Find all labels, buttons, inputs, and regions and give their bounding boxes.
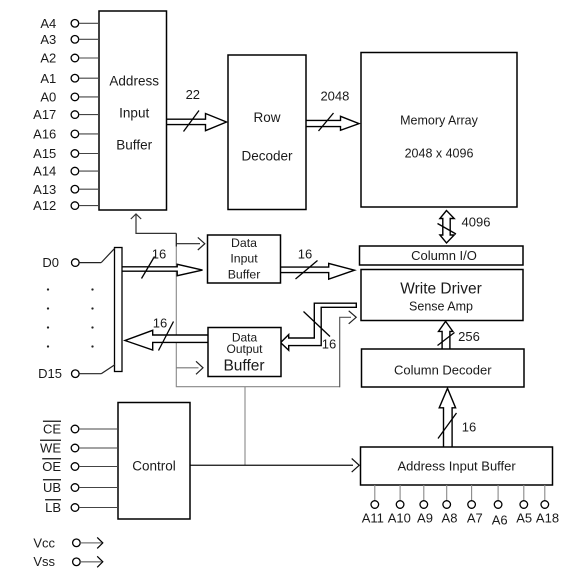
svg-text:A13: A13 — [33, 182, 56, 197]
svg-text:Buffer: Buffer — [223, 357, 264, 374]
svg-text:A12: A12 — [33, 198, 56, 213]
svg-text:A10: A10 — [388, 511, 411, 526]
svg-text:Sense Amp: Sense Amp — [409, 300, 473, 314]
svg-text:Data: Data — [231, 236, 257, 250]
svg-text:WE: WE — [40, 441, 61, 456]
svg-text:16: 16 — [322, 337, 336, 352]
svg-text:Buffer: Buffer — [116, 137, 152, 152]
svg-text:Buffer: Buffer — [228, 267, 261, 281]
svg-text:Input: Input — [230, 252, 258, 266]
svg-text:A15: A15 — [33, 146, 56, 161]
svg-text:UB: UB — [43, 480, 61, 495]
svg-text:LB: LB — [45, 500, 61, 515]
svg-text:2048: 2048 — [320, 89, 349, 104]
svg-text:A9: A9 — [417, 511, 433, 526]
svg-text:Row: Row — [253, 110, 280, 125]
svg-text:A14: A14 — [33, 164, 56, 179]
svg-text:16: 16 — [462, 420, 476, 435]
svg-text:A18: A18 — [536, 511, 559, 526]
svg-text:A3: A3 — [40, 32, 56, 47]
svg-text:D15: D15 — [38, 366, 62, 381]
svg-text:A2: A2 — [40, 51, 56, 66]
svg-text:Write Driver: Write Driver — [400, 280, 482, 297]
svg-text:Control: Control — [132, 458, 176, 473]
svg-text:A5: A5 — [516, 511, 532, 526]
svg-text:Address Input Buffer: Address Input Buffer — [397, 459, 516, 474]
svg-text:A7: A7 — [467, 511, 483, 526]
svg-text:A17: A17 — [33, 107, 56, 122]
svg-text:16: 16 — [298, 246, 312, 261]
svg-text:A16: A16 — [33, 127, 56, 142]
svg-text:D0: D0 — [42, 255, 59, 270]
svg-text:A8: A8 — [442, 511, 458, 526]
svg-text:Input: Input — [119, 106, 149, 121]
svg-text:Output: Output — [226, 342, 263, 356]
svg-text:16: 16 — [153, 316, 167, 331]
svg-text:Vcc: Vcc — [33, 535, 55, 550]
svg-text:A11: A11 — [362, 511, 384, 526]
svg-text:Decoder: Decoder — [241, 149, 293, 164]
svg-text:Column I/O: Column I/O — [411, 248, 477, 263]
svg-text:4096: 4096 — [462, 215, 491, 230]
svg-text:Memory Array: Memory Array — [400, 114, 479, 128]
svg-text:A1: A1 — [40, 71, 56, 86]
svg-text:CE: CE — [43, 422, 61, 437]
svg-text:A0: A0 — [40, 90, 56, 105]
svg-text:Column Decoder: Column Decoder — [394, 363, 492, 378]
svg-text:OE: OE — [42, 459, 61, 474]
svg-text:2048 x 4096: 2048 x 4096 — [405, 146, 474, 160]
svg-text:16: 16 — [152, 247, 166, 262]
svg-text:Address: Address — [109, 73, 159, 88]
svg-text:A6: A6 — [492, 513, 508, 528]
svg-text:22: 22 — [186, 87, 200, 102]
svg-text:A4: A4 — [40, 16, 56, 31]
svg-text:Vss: Vss — [33, 554, 55, 569]
svg-text:256: 256 — [458, 329, 480, 344]
